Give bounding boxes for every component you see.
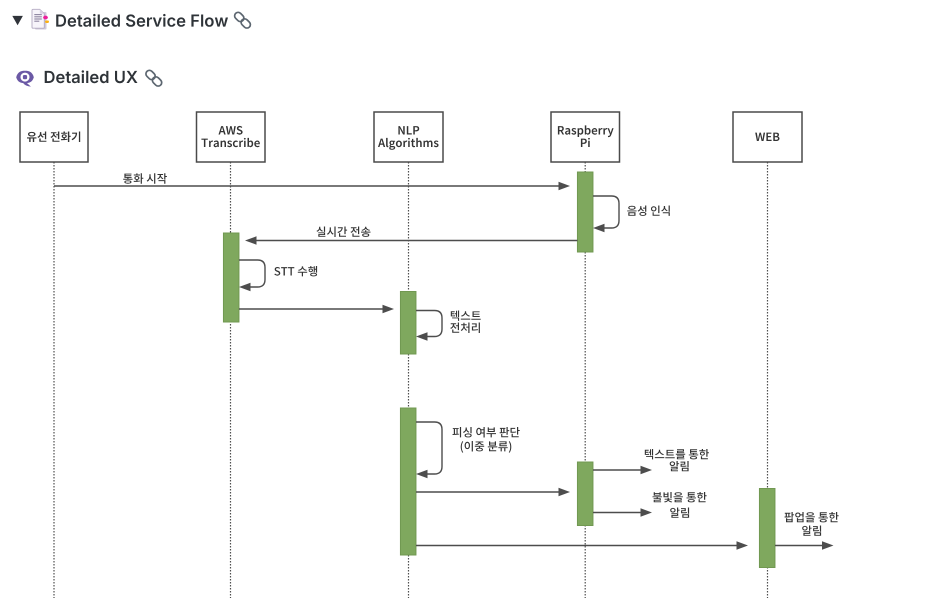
message 불빛을 통한 알림 (Raspberry Pi out): [593, 508, 652, 516]
actor AWS Transcribe: [197, 112, 266, 162]
self message 피싱 여부 판단 (NLP): [416, 422, 442, 478]
actor NLP Algorithms: [374, 112, 443, 162]
lifeline p4: [584, 162, 586, 598]
lifeline p2: [230, 162, 232, 598]
label 팝업을 통한 알림: [785, 512, 839, 522]
activation NLP 2: [400, 408, 416, 555]
lifeline p3: [408, 162, 410, 598]
activation Raspberry Pi 1: [577, 172, 593, 252]
message NLP to WEB: [416, 541, 748, 549]
message 팝업을 통한 알림 (WEB out): [775, 541, 834, 549]
label 텍스트를 통한 알림: [645, 449, 709, 459]
link icon 2: [144, 69, 163, 88]
activation WEB: [759, 489, 775, 568]
self message 음성 인식 (Raspberry Pi): [593, 196, 619, 232]
message 텍스트를 통한 알림 (Raspberry Pi out): [593, 466, 652, 474]
message AWS to NLP: [239, 305, 394, 313]
activation AWS Transcribe: [223, 233, 239, 322]
link icon 1: [233, 11, 252, 30]
self message STT 수행 (AWS): [239, 260, 265, 291]
actor Raspberry Pi: [551, 112, 620, 162]
toggle triangle: [12, 16, 23, 25]
message 통화 시작 (p1 to Raspberry Pi): [54, 173, 570, 190]
activation Raspberry Pi 2: [577, 462, 593, 526]
label 불빛을 통한 알림: [653, 492, 707, 502]
label 피싱 여부 판단 (이중 분류): [453, 427, 520, 438]
message 실시간 전송 (Raspberry Pi to AWS): [245, 227, 578, 245]
title Detailed Service Flow: [56, 14, 228, 27]
label STT 수행: [274, 266, 317, 276]
lifeline p5: [767, 162, 769, 598]
page document icon: [32, 9, 49, 29]
title Detailed UX: [45, 70, 138, 83]
self message 텍스트 전처리 (NLP): [416, 311, 442, 341]
label 텍스트 전처리: [451, 311, 481, 321]
lifeline p1: [53, 162, 55, 598]
actor 유선 전화기: [20, 112, 88, 162]
eye icon: [16, 71, 34, 87]
label 음성 인식: [627, 206, 670, 216]
activation NLP 1: [400, 292, 416, 355]
message NLP to Raspberry Pi: [416, 488, 570, 496]
actor WEB: [733, 112, 802, 162]
